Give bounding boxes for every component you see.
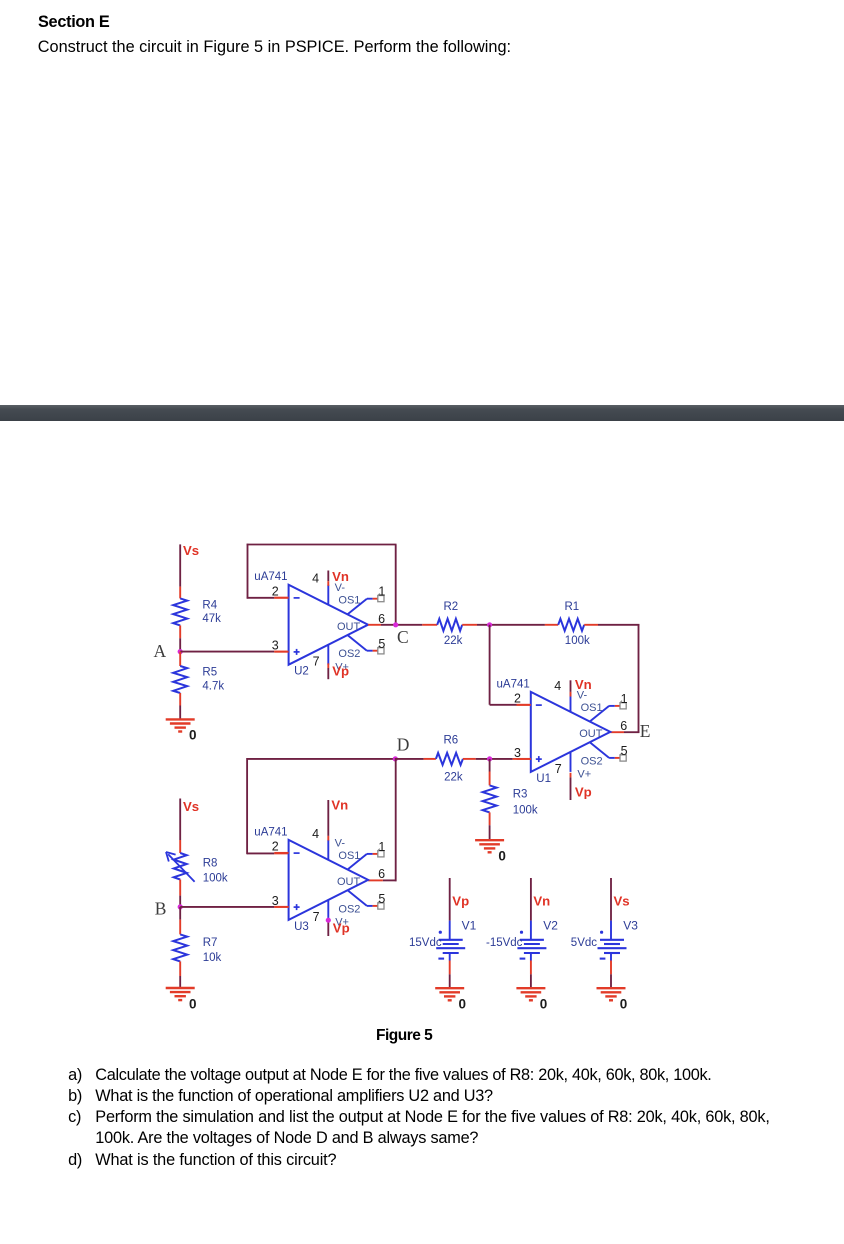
svg-text:5: 5 <box>378 892 385 906</box>
wire feedback right vertical down to node C <box>395 545 397 626</box>
svg-text:0: 0 <box>189 996 197 1011</box>
svg-text:R8: R8 <box>203 858 218 870</box>
svg-text:6: 6 <box>378 612 385 626</box>
ground under V3 <box>597 987 626 989</box>
svg-text:0: 0 <box>189 728 197 743</box>
svg-text:V-: V- <box>335 582 346 594</box>
wire V2 top net stub <box>530 878 532 921</box>
svg-text:V-: V- <box>335 837 346 849</box>
svg-text:6: 6 <box>378 867 385 881</box>
svg-text:7: 7 <box>313 910 320 924</box>
wire V3 top net stub <box>610 878 612 921</box>
junction dot at R6/R3/U1 pin 3 node <box>487 756 492 761</box>
svg-text:Vs: Vs <box>183 799 199 814</box>
svg-text:R2: R2 <box>444 601 459 613</box>
svg-text:-15Vdc: -15Vdc <box>486 937 523 949</box>
svg-text:4: 4 <box>312 572 319 586</box>
resistor R5 <box>173 666 187 693</box>
wire feedback top horizontal <box>247 544 397 546</box>
svg-text:5: 5 <box>621 744 628 758</box>
svg-text:OS1: OS1 <box>581 702 603 714</box>
svg-text:Vn: Vn <box>575 677 592 692</box>
wire U3 OUT segment <box>383 879 397 881</box>
node D junction dot <box>393 756 398 761</box>
wire U3 Vp power stub <box>327 920 329 936</box>
ground 0 (below R3) <box>475 839 504 841</box>
svg-text:4: 4 <box>312 827 319 841</box>
wire R8 to node B <box>179 880 181 896</box>
svg-text:OS2: OS2 <box>338 903 360 915</box>
svg-text:3: 3 <box>514 746 521 760</box>
junction dot at R2/R1/U1 pin 2 node <box>487 622 492 627</box>
svg-text:uA741: uA741 <box>254 826 287 838</box>
svg-text:15Vdc: 15Vdc <box>409 937 442 949</box>
svg-text:R6: R6 <box>444 735 459 747</box>
wire R6 to junction at U1 pin 3 <box>463 758 476 760</box>
wire U3 feedback left vertical <box>246 758 248 854</box>
resistor R1 (feedback) <box>558 619 584 631</box>
svg-text:2: 2 <box>272 585 279 599</box>
wire R7 to ground <box>179 961 181 976</box>
svg-text:10k: 10k <box>203 952 222 964</box>
svg-text:D: D <box>397 735 410 755</box>
svg-text:Vs: Vs <box>614 894 630 909</box>
svg-text:0: 0 <box>540 997 548 1012</box>
svg-text:U2: U2 <box>294 666 309 678</box>
dc source V3 (5Vdc) <box>610 921 612 940</box>
resistor R4 <box>173 598 187 625</box>
svg-text:100k: 100k <box>565 635 590 647</box>
svg-text:uA741: uA741 <box>254 571 287 583</box>
wire node B to R7 <box>179 907 181 920</box>
svg-text:Vs: Vs <box>183 543 199 558</box>
svg-text:R5: R5 <box>202 666 217 678</box>
wire U2 Vp power stub <box>327 663 329 668</box>
resistor R7 <box>173 934 187 961</box>
dc source V2 (-15Vdc) <box>530 921 532 940</box>
wire U3 Vn power stub (tall) <box>327 800 329 836</box>
node C junction dot <box>393 622 398 627</box>
svg-text:OS1: OS1 <box>338 850 360 862</box>
svg-text:Vn: Vn <box>331 798 348 813</box>
svg-text:0: 0 <box>620 997 628 1012</box>
op-amp U1 (uA741) <box>531 692 611 772</box>
svg-text:4.7k: 4.7k <box>202 681 224 693</box>
wire R5 to ground <box>179 693 181 706</box>
svg-text:A: A <box>154 641 167 661</box>
ground 0 (below R5) <box>166 718 195 720</box>
svg-text:V3: V3 <box>623 919 638 933</box>
wire R2 to junction <box>462 624 477 626</box>
wire R3 to ground <box>489 812 491 825</box>
svg-text:OUT: OUT <box>337 876 361 888</box>
svg-text:22k: 22k <box>444 771 463 783</box>
svg-text:V+: V+ <box>577 769 591 781</box>
wire U2 OUT to node C <box>368 624 381 626</box>
wire node B to U3 pin 3 <box>180 906 274 908</box>
svg-text:R3: R3 <box>513 789 528 801</box>
svg-text:0: 0 <box>498 849 506 864</box>
svg-text:100k: 100k <box>203 872 228 884</box>
svg-text:R7: R7 <box>203 937 218 949</box>
svg-text:OS1: OS1 <box>338 595 360 607</box>
resistor R6 <box>436 753 463 765</box>
svg-text:7: 7 <box>313 655 320 669</box>
svg-text:1: 1 <box>621 692 628 706</box>
svg-text:0: 0 <box>459 997 467 1012</box>
svg-text:22k: 22k <box>444 635 463 647</box>
junction dot on U3 V+ pin <box>326 918 331 923</box>
wire right vertical down to node E <box>638 624 640 733</box>
svg-text:Vn: Vn <box>533 894 550 909</box>
wire R4 to node A <box>179 625 181 638</box>
svg-text:uA741: uA741 <box>497 678 530 690</box>
svg-text:1: 1 <box>378 840 385 854</box>
svg-text:5Vdc: 5Vdc <box>571 937 597 949</box>
svg-text:Vp: Vp <box>452 894 469 909</box>
wire junction to R1 <box>545 624 558 626</box>
svg-text:E: E <box>640 721 651 741</box>
resistor R3 <box>483 785 497 812</box>
op-amp U3 (uA741) <box>289 840 369 920</box>
svg-text:2: 2 <box>272 840 279 854</box>
svg-text:R1: R1 <box>565 601 580 613</box>
wire V1 top net stub <box>449 878 451 921</box>
svg-text:R4: R4 <box>202 600 217 612</box>
svg-text:3: 3 <box>272 639 279 653</box>
wire U3 pin 2 segment <box>247 852 274 854</box>
ground under V1 <box>435 987 464 989</box>
wire node D down to U3 OUT <box>395 758 397 881</box>
wire feedback left vertical <box>247 544 249 599</box>
node A junction dot <box>178 649 183 654</box>
svg-text:V1: V1 <box>462 919 477 933</box>
svg-text:Vp: Vp <box>332 664 349 679</box>
svg-text:6: 6 <box>620 719 627 733</box>
wire node A to R5 <box>179 652 181 666</box>
svg-text:OUT: OUT <box>337 621 361 633</box>
op-amp U2 (uA741) <box>289 585 369 665</box>
svg-text:1: 1 <box>378 585 385 599</box>
svg-text:V2: V2 <box>543 919 558 933</box>
wire U2 pin 2 feedback (left segment) <box>274 597 288 599</box>
wire U2 Vn power stub <box>327 571 329 582</box>
wire R1 to right corner <box>584 624 598 626</box>
svg-text:OUT: OUT <box>579 728 603 740</box>
svg-text:OS2: OS2 <box>338 648 360 660</box>
svg-text:2: 2 <box>514 692 521 706</box>
svg-text:3: 3 <box>272 894 279 908</box>
wire node A to U2 pin 3 <box>180 651 274 653</box>
svg-text:Vp: Vp <box>333 921 350 936</box>
wire Vs net to R4 (top-left branch) <box>179 544 181 586</box>
svg-text:U3: U3 <box>294 921 309 933</box>
wire node C to R2 <box>422 624 437 626</box>
wire junction down to U1 pin 2 <box>489 625 491 705</box>
wire V1 to ground <box>449 961 451 975</box>
ground under V2 <box>516 987 545 989</box>
wire V2 to ground <box>530 961 532 975</box>
svg-text:OS2: OS2 <box>581 755 603 767</box>
svg-text:C: C <box>397 627 409 647</box>
svg-text:47k: 47k <box>202 613 221 625</box>
svg-text:5: 5 <box>378 637 385 651</box>
potentiometer R8 (variable) <box>174 853 187 880</box>
dc source V1 (15Vdc) <box>449 921 451 940</box>
wire V3 to ground <box>610 961 612 975</box>
svg-text:B: B <box>155 898 167 918</box>
wire node D row (to R6 and down) <box>247 758 396 760</box>
svg-text:7: 7 <box>555 762 562 776</box>
svg-text:Vp: Vp <box>575 785 592 800</box>
wire U1 Vp power stub <box>570 773 572 778</box>
svg-text:100k: 100k <box>513 804 538 816</box>
svg-text:Vn: Vn <box>332 569 349 584</box>
svg-text:4: 4 <box>554 679 561 693</box>
wire junction down to R3 <box>489 759 491 772</box>
node B junction dot <box>178 904 183 909</box>
ground 0 (below R7) <box>166 987 195 989</box>
wire node E to U1 OUT <box>624 731 639 733</box>
resistor R2 <box>437 619 462 631</box>
wire U1 Vn power stub <box>570 680 572 692</box>
svg-text:U1: U1 <box>536 773 551 785</box>
